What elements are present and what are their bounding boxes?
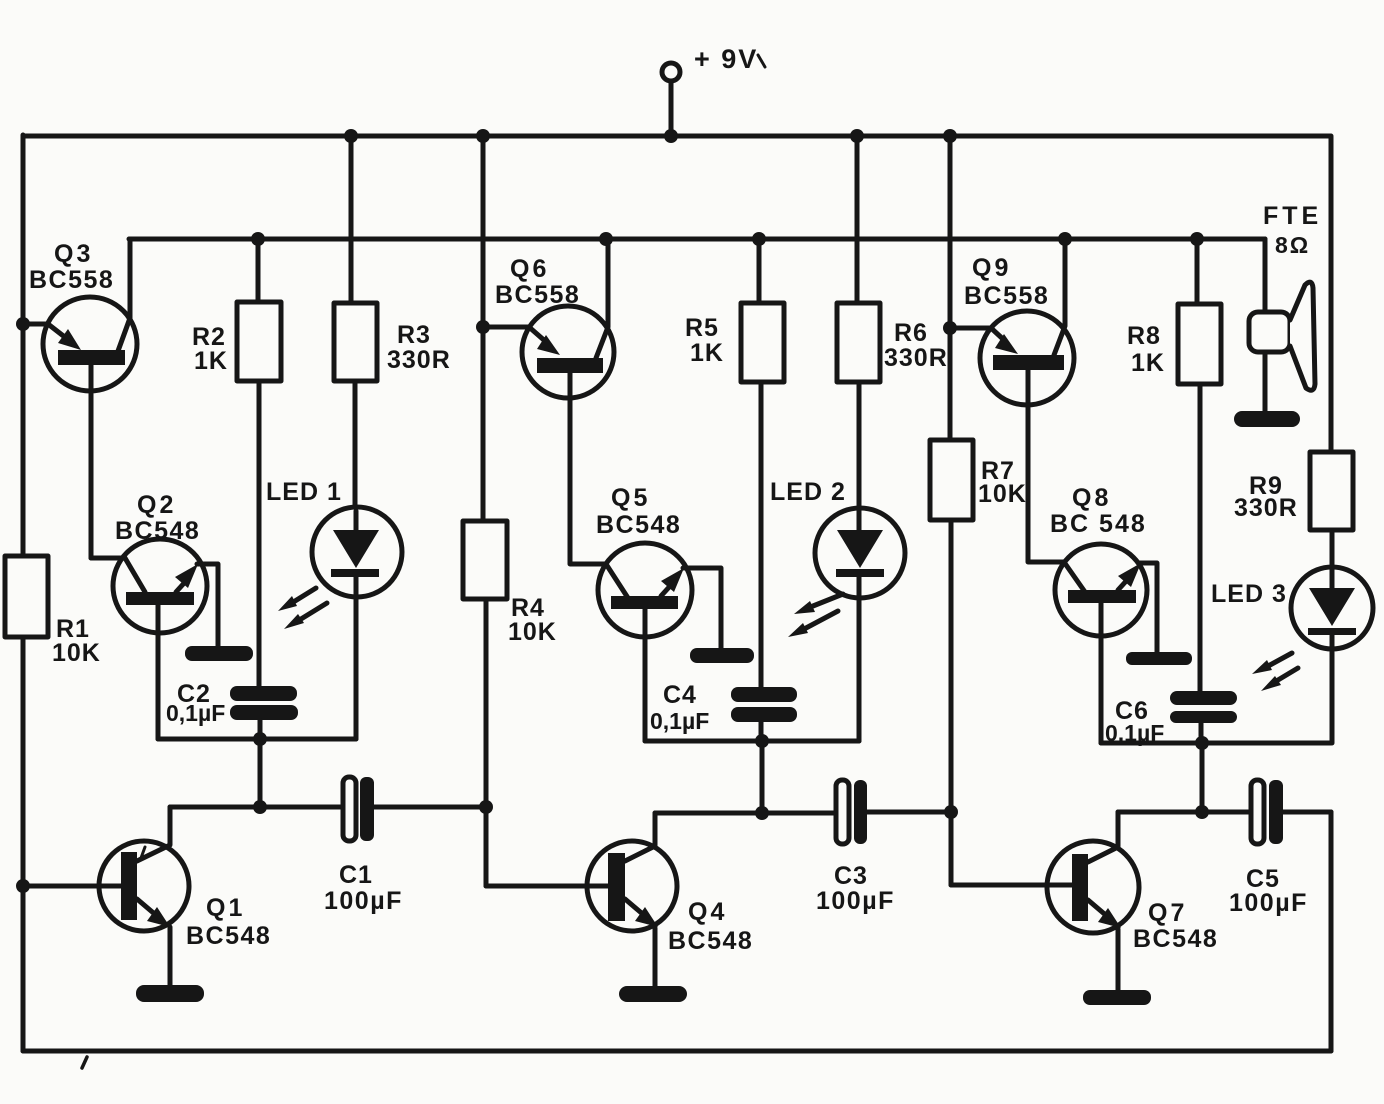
capacitor C3 (836, 780, 867, 844)
svg-text:BC548: BC548 (1133, 925, 1218, 953)
svg-text:10K: 10K (508, 618, 557, 646)
transistor Q2 (91, 539, 218, 739)
resistor R6 (837, 136, 880, 510)
svg-text:330R: 330R (387, 346, 451, 374)
transistor Q9 (950, 239, 1074, 562)
junction speaker rail R8 (1190, 232, 1204, 246)
svg-text:100µF: 100µF (816, 887, 895, 915)
light arrows LED1 (278, 588, 327, 629)
svg-text:LED 1: LED 1 (266, 478, 342, 506)
wire Q5 base node (645, 739, 859, 744)
wire Q8 base node (1101, 741, 1331, 746)
svg-text:Q4: Q4 (688, 898, 727, 926)
wire right border lower (C5 return) (1329, 812, 1334, 1051)
svg-text:330R: 330R (1234, 494, 1298, 522)
transistor Q1 (23, 807, 189, 985)
junction speaker rail Q6 collector (599, 232, 613, 246)
svg-text:Q9: Q9 (972, 254, 1011, 282)
svg-text:100µF: 100µF (324, 887, 403, 915)
capacitor C6 (1170, 691, 1237, 723)
svg-text:1K: 1K (1131, 349, 1165, 377)
wire C2 to Q1 collector node (258, 739, 263, 807)
transistor Q6 (483, 239, 614, 564)
svg-text:Q3: Q3 (54, 240, 93, 268)
svg-text:R3: R3 (397, 321, 431, 349)
wire stage2 feed vertical (481, 136, 486, 521)
wire speaker rail (129, 237, 1265, 242)
capacitor C1 (343, 777, 374, 841)
junction top rail R6 (850, 129, 864, 143)
svg-text:1K: 1K (690, 339, 724, 367)
junction Q1 base on left border (16, 879, 30, 893)
junction Q9 emitter (943, 321, 957, 335)
svg-text:Q1: Q1 (206, 894, 245, 922)
ground bar Q8 emitter (1126, 652, 1192, 665)
transistor Q4 (486, 813, 677, 986)
wire +9V lead (669, 81, 674, 136)
svg-text:Q2: Q2 (137, 491, 176, 519)
svg-text:100µF: 100µF (1229, 889, 1308, 917)
junction Q6 emitter (476, 320, 490, 334)
wire Q7 collector to C5 (1118, 810, 1251, 815)
junction top rail stage2 (476, 129, 490, 143)
resistor R9 (1310, 452, 1353, 567)
svg-text:Q8: Q8 (1072, 484, 1111, 512)
svg-text:0,1µF: 0,1µF (650, 708, 709, 734)
svg-text:R5: R5 (685, 314, 719, 342)
wire C6 to C5 line (1200, 743, 1205, 812)
light arrows LED3 (1252, 653, 1298, 691)
resistor R2 (237, 239, 281, 686)
junction C4 on Q4 collector line (755, 806, 769, 820)
LED LED3 (1291, 567, 1373, 743)
junction top rail +9V (664, 129, 678, 143)
junction C3 right at R7 chain (944, 805, 958, 819)
transistor Q7 (951, 812, 1139, 990)
ground bar Q5 emitter (690, 648, 754, 663)
resistor R3 (334, 136, 377, 511)
node +9V terminal (662, 63, 680, 81)
svg-text:Q7: Q7 (1148, 899, 1187, 927)
wire C1 to R4 vertical (374, 805, 486, 810)
wire speaker to ground (1263, 352, 1268, 411)
stray mark bottom left (82, 1057, 87, 1068)
light arrows LED2 (788, 594, 843, 637)
junction speaker rail Q9 collector (1058, 232, 1072, 246)
ground bar Q2 emitter (185, 646, 253, 661)
junction Q3 emitter on +9V border (16, 317, 30, 331)
svg-text:C3: C3 (834, 862, 868, 890)
svg-text:BC558: BC558 (964, 282, 1049, 310)
svg-text:BC548: BC548 (186, 922, 271, 950)
resistor R4 (463, 521, 507, 886)
capacitor C5 (1251, 780, 1283, 844)
ground bar speaker (1234, 411, 1300, 427)
capacitor C4 (731, 687, 797, 722)
svg-text:8Ω: 8Ω (1275, 232, 1310, 258)
junction C4 bottom (755, 734, 769, 748)
junction speaker rail R5 (752, 232, 766, 246)
wire Q2 base node (158, 737, 356, 742)
svg-text:0,1µF: 0,1µF (166, 700, 225, 726)
LED LED2 (815, 508, 905, 741)
ground bar Q1 emitter (136, 985, 204, 1002)
transistor Q3 (23, 239, 137, 558)
svg-text:R6: R6 (894, 319, 928, 347)
junction C2 on Q1 collector line (253, 800, 267, 814)
svg-text:BC558: BC558 (29, 266, 114, 294)
svg-text:1K: 1K (194, 347, 228, 375)
svg-text:10K: 10K (52, 639, 101, 667)
junction C1 right at R4 chain (479, 800, 493, 814)
svg-text:BC 548: BC 548 (1050, 510, 1147, 538)
junction top rail R3 (344, 129, 358, 143)
stray mark Q1 top (141, 847, 145, 858)
wire stage3 feed vertical (948, 136, 953, 440)
wire C5 to right border (1283, 810, 1331, 815)
svg-text:BC548: BC548 (596, 511, 681, 539)
resistor R1 (5, 556, 48, 637)
resistor R5 (741, 239, 784, 687)
junction top rail stage3 (943, 129, 957, 143)
resistor R7 (930, 440, 973, 885)
svg-text:C4: C4 (663, 681, 697, 709)
wire Q1 collector to C1 (170, 805, 343, 810)
wire Q4 collector to C3 (655, 811, 836, 816)
wire C4 to Q4 collector node (760, 741, 765, 813)
svg-text:Q6: Q6 (510, 255, 549, 283)
svg-text:C1: C1 (339, 861, 373, 889)
speaker FTE (1249, 282, 1315, 390)
svg-text:+ 9V: + 9V (694, 44, 758, 74)
svg-text:R8: R8 (1127, 322, 1161, 350)
svg-text:BC548: BC548 (115, 517, 200, 545)
svg-text:LED 2: LED 2 (770, 478, 846, 506)
ground bar Q4 emitter (619, 986, 687, 1002)
svg-text:FTE: FTE (1263, 202, 1322, 230)
junction C6 on C5 line (1195, 805, 1209, 819)
transistor Q5 (598, 543, 721, 741)
wire bottom border (23, 1049, 1331, 1054)
transistor Q8 (1055, 544, 1157, 743)
svg-text:330R: 330R (884, 344, 948, 372)
svg-text:Q5: Q5 (611, 484, 650, 512)
wire top supply rail (23, 134, 1331, 139)
junction C6 bottom (1195, 736, 1209, 750)
svg-text:10K: 10K (978, 480, 1027, 508)
wire C3 to R7 vertical (867, 810, 951, 815)
junction speaker rail R2 (251, 232, 265, 246)
wire left border (+9V down side) (21, 135, 26, 556)
LED LED1 (312, 507, 402, 739)
svg-text:LED 3: LED 3 (1211, 580, 1287, 608)
svg-text:BC558: BC558 (495, 281, 580, 309)
wire left border lower (Q1 base to ground ring) (21, 637, 26, 1051)
svg-text:BC548: BC548 (668, 927, 753, 955)
resistor R8 (1178, 239, 1221, 691)
ground bar Q7 emitter (1083, 990, 1151, 1005)
wire right border upper (1329, 137, 1334, 452)
capacitor C2 (230, 686, 298, 720)
speaker FTE lead (1263, 239, 1268, 312)
junction C2 bottom (253, 732, 267, 746)
